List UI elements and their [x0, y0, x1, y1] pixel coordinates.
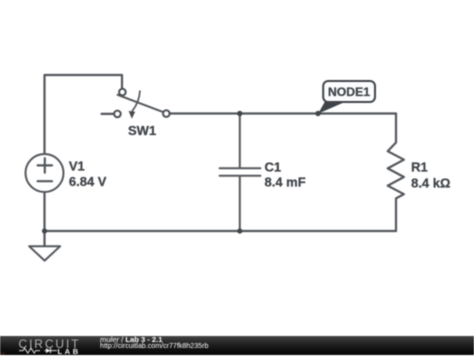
svg-text:V1: V1: [69, 158, 85, 173]
svg-text:8.4 kΩ: 8.4 kΩ: [411, 176, 450, 191]
svg-text:NODE1: NODE1: [328, 85, 370, 99]
svg-text:SW1: SW1: [128, 123, 156, 138]
svg-text:8.4 mF: 8.4 mF: [265, 174, 306, 189]
svg-text:C1: C1: [265, 160, 282, 175]
svg-text:R1: R1: [411, 159, 428, 174]
svg-text:6.84 V: 6.84 V: [69, 174, 107, 189]
